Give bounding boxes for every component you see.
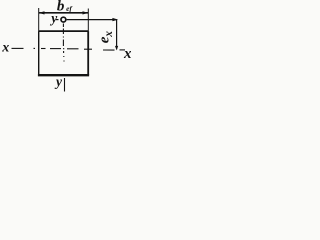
dimension e_x vertical line [116, 20, 118, 50]
extension line left [38, 8, 40, 31]
svg-text:x: x [123, 46, 131, 62]
label e_x (rotated) [97, 31, 116, 44]
svg-text:y: y [49, 10, 58, 25]
svg-text:x: x [103, 31, 115, 38]
y-y axis (vertical dash-dot centerline) [63, 24, 64, 92]
svg-text:b: b [57, 0, 65, 14]
dimension e_x down arrow [115, 46, 118, 51]
load point circle [61, 17, 66, 22]
section outline (square) [38, 31, 89, 75]
dimension b_ef left arrow [39, 11, 45, 14]
load line right arrow [112, 18, 118, 21]
extension line right [87, 9, 89, 32]
svg-text:y: y [54, 74, 63, 89]
dimension b_ef line [39, 11, 89, 14]
dimension b_ef right arrow [83, 11, 89, 14]
load line through circle [56, 19, 117, 21]
x-x axis (horizontal dash-dot centerline) [12, 48, 126, 50]
svg-text:x: x [1, 41, 9, 56]
